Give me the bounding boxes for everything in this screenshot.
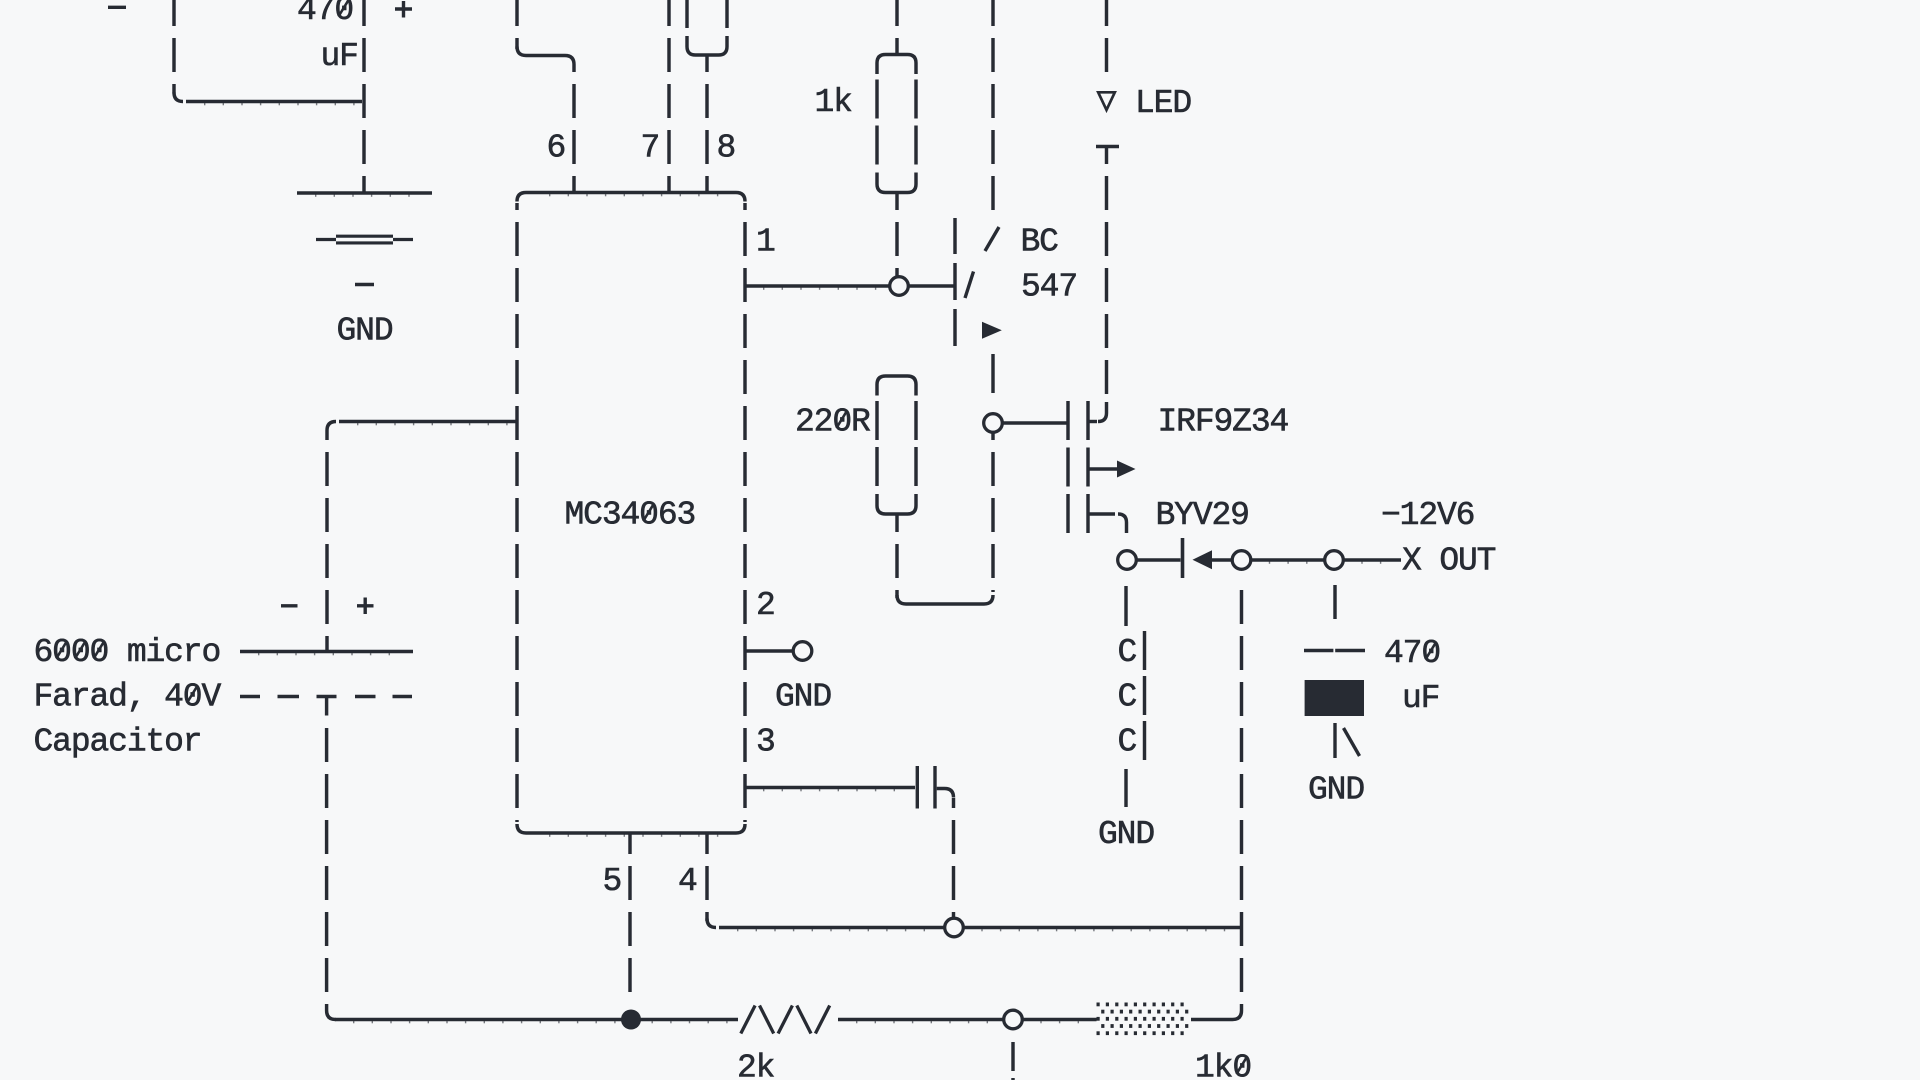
svg-text:C: C <box>1118 724 1137 761</box>
svg-text:C: C <box>1118 679 1137 716</box>
svg-text:uF: uF <box>1402 680 1439 717</box>
svg-text:BYV29: BYV29 <box>1156 497 1249 534</box>
svg-text:BC: BC <box>1021 224 1059 261</box>
svg-text:220R: 220R <box>795 404 870 441</box>
svg-text:470: 470 <box>1384 635 1440 672</box>
svg-text:547: 547 <box>1021 269 1077 306</box>
svg-text:C: C <box>1118 634 1137 671</box>
svg-text:Farad, 40V: Farad, 40V <box>34 679 222 716</box>
svg-text:GND: GND <box>1098 816 1154 853</box>
svg-text:Capacitor: Capacitor <box>34 724 202 761</box>
svg-text:2: 2 <box>756 587 775 624</box>
svg-text:GND: GND <box>337 313 393 350</box>
svg-text:X OUT: X OUT <box>1402 543 1496 580</box>
svg-text:6000 micro: 6000 micro <box>34 634 221 671</box>
svg-text:GND: GND <box>1308 772 1364 809</box>
svg-text:uF: uF <box>321 38 358 75</box>
svg-text:5: 5 <box>603 863 622 900</box>
svg-text:1: 1 <box>756 224 775 261</box>
svg-text:4: 4 <box>678 863 697 900</box>
svg-text:GND: GND <box>775 679 831 716</box>
svg-text:MC34063: MC34063 <box>565 497 696 534</box>
svg-text:7: 7 <box>641 130 660 167</box>
svg-text:8: 8 <box>717 130 736 167</box>
svg-text:1k: 1k <box>815 84 853 121</box>
svg-text:6: 6 <box>547 130 566 167</box>
svg-text:−12V6: −12V6 <box>1381 497 1474 534</box>
svg-text:IRF9Z34: IRF9Z34 <box>1158 404 1289 441</box>
svg-text:3: 3 <box>756 724 775 761</box>
svg-text:2k: 2k <box>737 1050 775 1080</box>
svg-text:LED: LED <box>1135 85 1191 122</box>
